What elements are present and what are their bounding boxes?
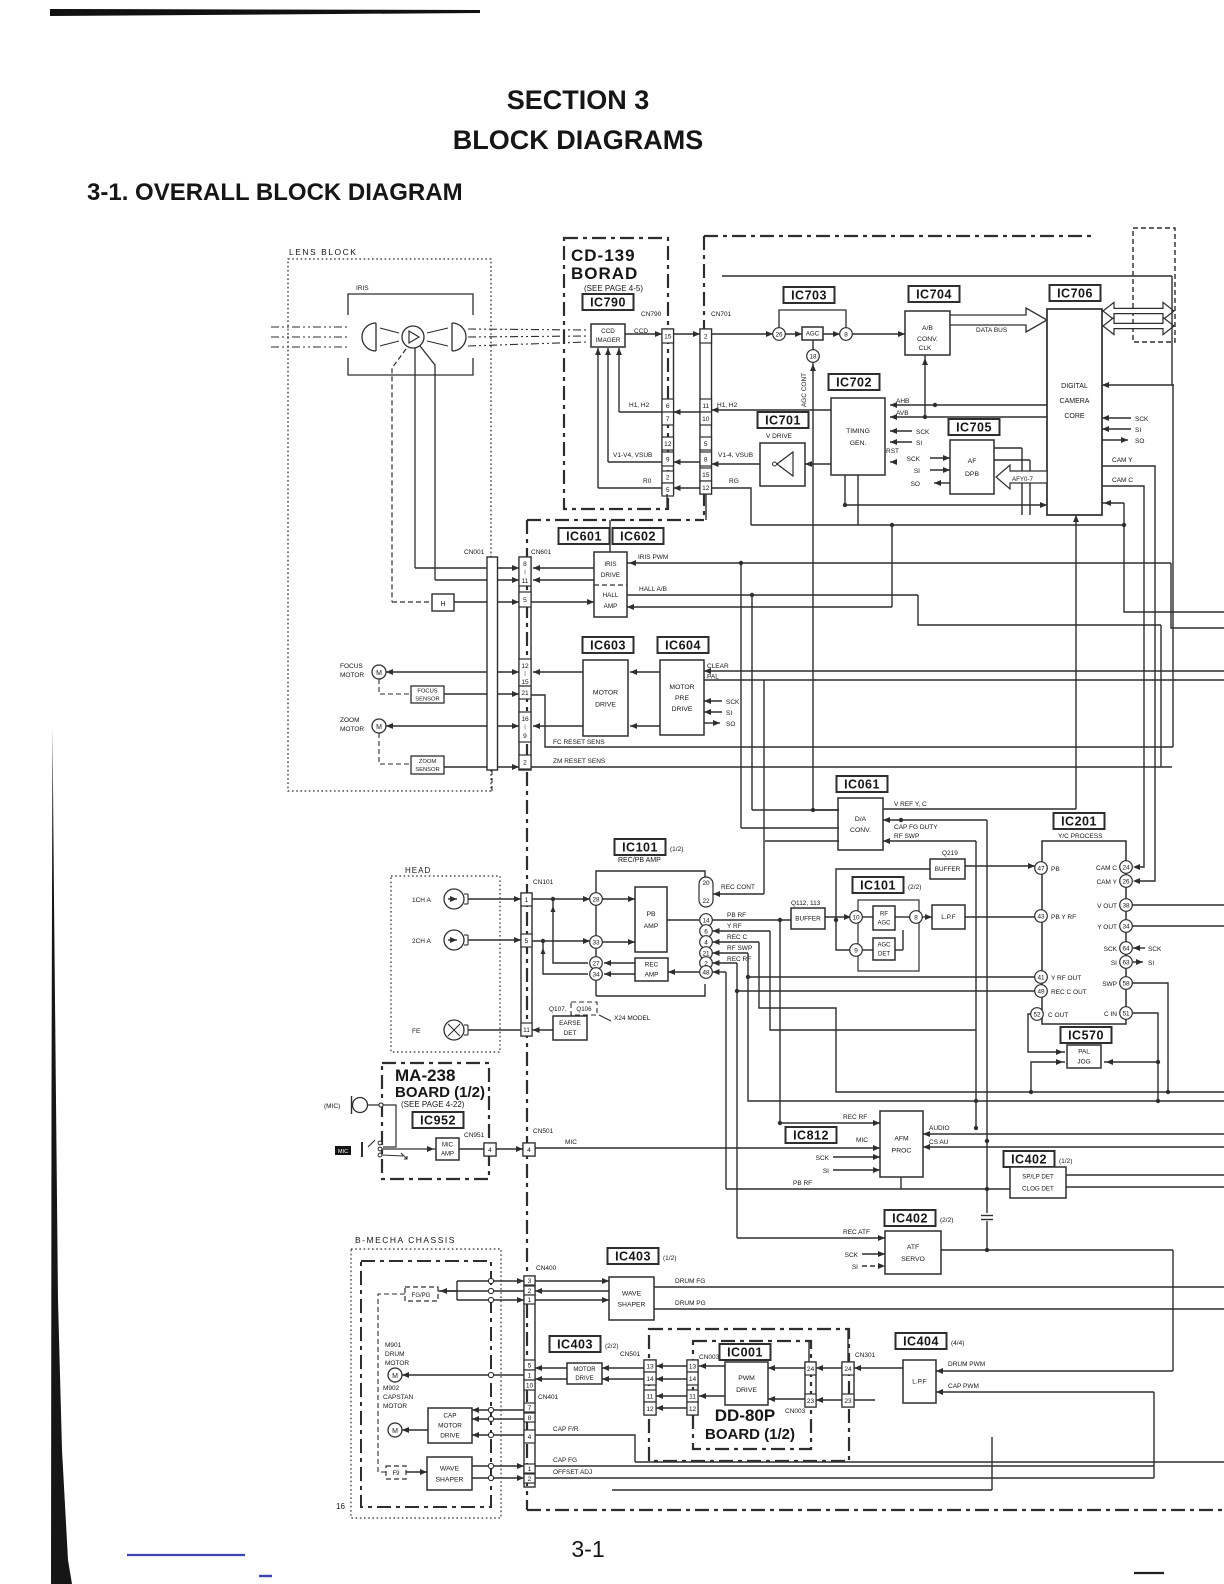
svg-text:IC704: IC704 (916, 287, 952, 301)
svg-text:47: 47 (1037, 865, 1045, 872)
svg-text:CN001: CN001 (464, 549, 485, 556)
svg-text:5: 5 (704, 441, 708, 448)
svg-text:WAVE: WAVE (440, 1465, 460, 1472)
svg-text:23: 23 (807, 1398, 815, 1405)
svg-text:IC790: IC790 (590, 295, 626, 309)
svg-text:10: 10 (852, 914, 860, 921)
svg-text:CN003: CN003 (699, 1354, 720, 1361)
svg-text:IC403: IC403 (557, 1337, 593, 1351)
svg-text:AGC CONT: AGC CONT (801, 373, 808, 407)
svg-text:Y OUT: Y OUT (1097, 924, 1117, 931)
svg-text:18: 18 (809, 353, 817, 360)
svg-text:H: H (440, 601, 445, 608)
svg-text:14: 14 (689, 1376, 697, 1383)
svg-text:34: 34 (592, 971, 600, 978)
svg-text:IMAGER: IMAGER (596, 337, 621, 344)
svg-text:MOTOR: MOTOR (340, 672, 364, 679)
svg-text:CN951: CN951 (464, 1132, 485, 1139)
svg-text:11: 11 (702, 403, 709, 410)
svg-text:3: 3 (528, 1278, 532, 1285)
svg-text:15: 15 (664, 334, 672, 341)
svg-text:(2/2): (2/2) (908, 884, 921, 891)
svg-text:CCD: CCD (601, 328, 615, 335)
svg-text:IC601: IC601 (566, 529, 602, 543)
svg-text:REC: REC (645, 962, 659, 969)
svg-text:M: M (392, 1373, 398, 1380)
svg-text:BOARD (1/2): BOARD (1/2) (705, 1426, 795, 1443)
svg-text:43: 43 (1037, 913, 1045, 920)
svg-text:DRIVE: DRIVE (575, 1376, 593, 1382)
svg-text:SCK: SCK (845, 1252, 859, 1259)
svg-text:11: 11 (522, 578, 529, 585)
svg-text:DET: DET (878, 952, 890, 958)
svg-text:CN003: CN003 (785, 1408, 806, 1415)
svg-text:CLOG DET: CLOG DET (1022, 1186, 1054, 1193)
svg-text:24: 24 (1122, 864, 1130, 871)
svg-text:7: 7 (528, 1405, 532, 1412)
svg-text:AMP: AMP (644, 923, 659, 930)
svg-text:IC603: IC603 (590, 638, 626, 652)
svg-text:33: 33 (592, 939, 600, 946)
svg-text:11: 11 (647, 1394, 654, 1401)
svg-text:DRIVE: DRIVE (440, 1433, 460, 1440)
svg-text:IC812: IC812 (793, 1128, 829, 1142)
svg-text:24: 24 (844, 1366, 852, 1373)
svg-text:AGC: AGC (877, 921, 891, 927)
svg-text:SI: SI (1135, 427, 1141, 434)
svg-text:IC952: IC952 (420, 1113, 456, 1127)
svg-text:8: 8 (704, 457, 708, 464)
svg-text:2: 2 (523, 760, 527, 767)
svg-text:DD-80P: DD-80P (715, 1406, 775, 1425)
svg-text:IC061: IC061 (844, 777, 880, 791)
svg-text:M: M (392, 1428, 398, 1435)
svg-text:(SEE PAGE 4-22): (SEE PAGE 4-22) (401, 1100, 465, 1109)
svg-text:(1/2): (1/2) (670, 846, 683, 853)
svg-text:GEN.: GEN. (850, 440, 867, 447)
svg-text:HALL: HALL (603, 592, 619, 599)
svg-text:IC101: IC101 (622, 840, 658, 854)
svg-text:12: 12 (689, 1406, 697, 1413)
svg-text:21: 21 (521, 690, 529, 697)
svg-text:F9: F9 (392, 1471, 400, 1477)
svg-text:AMP: AMP (645, 972, 659, 979)
svg-text:CN501: CN501 (533, 1128, 554, 1135)
svg-text:HEAD: HEAD (405, 866, 431, 875)
svg-text:DRIVE: DRIVE (595, 701, 616, 708)
svg-text:(1/2): (1/2) (1059, 1158, 1072, 1165)
svg-text:CORE: CORE (1064, 413, 1085, 420)
svg-text:IC201: IC201 (1061, 814, 1097, 828)
svg-text:CAP PWM: CAP PWM (948, 1383, 979, 1390)
svg-text:OFFSET ADJ: OFFSET ADJ (553, 1469, 592, 1476)
svg-text:TIMING: TIMING (846, 428, 870, 435)
svg-text:PROC: PROC (892, 1147, 912, 1154)
svg-text:R0: R0 (643, 478, 652, 485)
svg-text:SO: SO (726, 721, 735, 728)
svg-text:ATF: ATF (907, 1244, 919, 1251)
svg-text:AMP: AMP (604, 603, 618, 610)
svg-text:CONV.: CONV. (917, 336, 938, 343)
svg-text:2CH A: 2CH A (412, 938, 431, 945)
svg-text:5: 5 (528, 1363, 532, 1370)
svg-text:RF SWP: RF SWP (727, 945, 752, 952)
svg-text:JOG: JOG (1077, 1059, 1090, 1066)
svg-text:SI: SI (726, 710, 732, 717)
svg-text:AVB: AVB (896, 410, 909, 417)
svg-text:H1, H2: H1, H2 (629, 402, 650, 409)
svg-text:6: 6 (666, 403, 670, 410)
svg-text:M: M (376, 670, 382, 677)
svg-text:11: 11 (523, 1027, 530, 1034)
svg-text:IC703: IC703 (791, 288, 827, 302)
svg-text:IRIS PWM: IRIS PWM (638, 554, 668, 561)
svg-text:CLEAR: CLEAR (707, 663, 729, 670)
svg-text:SI: SI (1111, 960, 1117, 967)
svg-text:2: 2 (704, 334, 708, 341)
svg-text:(SEE PAGE 4-5): (SEE PAGE 4-5) (584, 284, 643, 293)
svg-text:ZOOM: ZOOM (340, 717, 360, 724)
svg-text:LENS BLOCK: LENS BLOCK (289, 247, 357, 257)
svg-text:8: 8 (523, 561, 527, 568)
svg-text:14: 14 (646, 1376, 654, 1383)
svg-text:Q107,: Q107, (549, 1006, 567, 1013)
svg-text:5: 5 (666, 487, 670, 494)
svg-text:MIC: MIC (565, 1139, 577, 1146)
svg-text:PB RF: PB RF (727, 912, 746, 919)
svg-text:4: 4 (528, 1434, 532, 1441)
svg-text:64: 64 (1122, 945, 1130, 952)
svg-text:DIGITAL: DIGITAL (1061, 383, 1088, 390)
svg-text:A/B: A/B (922, 325, 933, 332)
svg-text:1CH A: 1CH A (412, 897, 431, 904)
svg-text:22: 22 (702, 898, 710, 905)
svg-text:DPB: DPB (965, 471, 979, 478)
svg-text:49: 49 (1037, 988, 1045, 995)
svg-text:CN401: CN401 (538, 1394, 559, 1401)
svg-text:15: 15 (521, 679, 529, 686)
svg-text:MOTOR: MOTOR (593, 689, 618, 696)
svg-text:11: 11 (689, 1394, 696, 1401)
svg-text:ZOOM: ZOOM (419, 759, 437, 765)
svg-text:RF SWP: RF SWP (894, 833, 919, 840)
svg-text:IC570: IC570 (1068, 1028, 1104, 1042)
svg-text:MA-238: MA-238 (395, 1066, 455, 1085)
svg-text:BUFFER: BUFFER (935, 866, 961, 873)
svg-text:28: 28 (592, 896, 600, 903)
svg-text:SERVO: SERVO (901, 1256, 925, 1263)
svg-text:6: 6 (704, 928, 708, 935)
svg-text:CN301: CN301 (855, 1352, 876, 1359)
svg-text:7: 7 (666, 416, 670, 423)
svg-text:IC402: IC402 (892, 1211, 928, 1225)
svg-text:DET: DET (564, 1030, 577, 1037)
svg-text:PWM: PWM (738, 1375, 755, 1382)
svg-text:SI: SI (1148, 960, 1154, 967)
svg-text:MOTOR: MOTOR (383, 1403, 407, 1410)
svg-text:V1-4, VSUB: V1-4, VSUB (718, 452, 753, 459)
svg-text:AGC: AGC (806, 331, 820, 338)
svg-text:DRUM PG: DRUM PG (675, 1300, 706, 1307)
svg-text:AGC: AGC (877, 943, 891, 949)
svg-text:4: 4 (527, 1147, 531, 1154)
svg-text:B-MECHA CHASSIS: B-MECHA CHASSIS (355, 1235, 456, 1245)
svg-text:9: 9 (854, 947, 858, 954)
svg-text:IC101: IC101 (860, 878, 896, 892)
svg-text:AHB: AHB (896, 398, 909, 405)
svg-text:MOTOR: MOTOR (385, 1360, 409, 1367)
svg-text:IRIS: IRIS (356, 285, 369, 292)
svg-text:FC RESET SENS: FC RESET SENS (553, 739, 605, 746)
svg-text:H1, H2: H1, H2 (717, 402, 738, 409)
svg-text:REC C: REC C (727, 934, 748, 941)
svg-text:24: 24 (807, 1366, 815, 1373)
svg-text:1: 1 (525, 897, 529, 904)
svg-text:IC706: IC706 (1057, 286, 1093, 300)
svg-text:|: | (524, 570, 525, 576)
svg-text:Y RF: Y RF (727, 923, 742, 930)
svg-text:DATA BUS: DATA BUS (976, 327, 1008, 334)
svg-text:CAM Y: CAM Y (1112, 457, 1133, 464)
svg-text:SHAPER: SHAPER (618, 1301, 646, 1308)
svg-text:SCK: SCK (1135, 416, 1149, 423)
svg-text:MOTOR: MOTOR (573, 1367, 596, 1373)
svg-text:DRUM: DRUM (385, 1351, 405, 1358)
svg-text:1: 1 (528, 1466, 532, 1473)
svg-text:PAL: PAL (1078, 1049, 1090, 1056)
svg-text:IC701: IC701 (765, 413, 801, 427)
svg-text:10: 10 (702, 416, 710, 423)
svg-text:(MIC): (MIC) (324, 1103, 340, 1110)
svg-text:AFM: AFM (894, 1135, 909, 1142)
svg-text:AUDIO: AUDIO (929, 1125, 950, 1132)
svg-text:Q219: Q219 (942, 850, 958, 857)
svg-text:RF: RF (880, 912, 888, 918)
svg-text:SENSOR: SENSOR (415, 767, 439, 773)
svg-text:1: 1 (528, 1373, 532, 1380)
svg-text:CN101: CN101 (533, 879, 554, 886)
svg-text:AFY0-7: AFY0-7 (1012, 476, 1034, 483)
svg-text:REC RF: REC RF (843, 1114, 867, 1121)
svg-text:2: 2 (528, 1476, 532, 1483)
svg-text:IC604: IC604 (665, 638, 701, 652)
svg-text:26: 26 (1122, 878, 1130, 885)
svg-text:L.P.F: L.P.F (941, 914, 956, 921)
svg-text:CAM C: CAM C (1096, 865, 1117, 872)
svg-text:CAP: CAP (443, 1413, 456, 1420)
svg-text:SCK: SCK (1104, 946, 1118, 953)
svg-text:CS AU: CS AU (929, 1139, 949, 1146)
svg-text:SENSOR: SENSOR (415, 697, 439, 703)
svg-text:13: 13 (646, 1364, 654, 1371)
svg-text:SI: SI (823, 1168, 829, 1175)
svg-text:FG/PG: FG/PG (412, 1293, 431, 1299)
svg-text:V REF Y, C: V REF Y, C (894, 801, 927, 808)
svg-text:SI: SI (916, 440, 922, 447)
svg-text:5: 5 (523, 597, 527, 604)
svg-text:14: 14 (702, 917, 710, 924)
svg-text:V DRIVE: V DRIVE (766, 433, 793, 440)
svg-text:SO: SO (1135, 438, 1144, 445)
svg-text:CN790: CN790 (641, 311, 662, 318)
svg-text:9: 9 (523, 733, 527, 740)
svg-text:CN601: CN601 (531, 549, 552, 556)
svg-text:BLOCK DIAGRAMS: BLOCK DIAGRAMS (453, 125, 704, 155)
svg-text:DRUM FG: DRUM FG (675, 1278, 705, 1285)
svg-text:23: 23 (844, 1398, 852, 1405)
svg-text:BORAD: BORAD (571, 264, 638, 283)
svg-text:SCK: SCK (1148, 946, 1162, 953)
svg-text:RST: RST (886, 448, 899, 455)
svg-text:SHAPER: SHAPER (436, 1476, 464, 1483)
svg-text:MOTOR: MOTOR (669, 684, 694, 691)
svg-text:12: 12 (521, 663, 529, 670)
svg-text:MIC: MIC (856, 1137, 868, 1144)
svg-text:20: 20 (702, 880, 710, 887)
svg-text:58: 58 (1122, 980, 1130, 987)
svg-text:(2/2): (2/2) (940, 1217, 953, 1224)
svg-text:DRIVE: DRIVE (672, 706, 693, 713)
svg-text:RG: RG (729, 478, 739, 485)
svg-text:DRIVE: DRIVE (736, 1387, 757, 1394)
svg-text:V1-V4, VSUB: V1-V4, VSUB (613, 452, 652, 459)
svg-text:IC702: IC702 (836, 375, 872, 389)
svg-text:SP/LP DET: SP/LP DET (1022, 1174, 1054, 1181)
svg-text:1: 1 (528, 1297, 532, 1304)
svg-text:CAM Y: CAM Y (1097, 879, 1118, 886)
svg-text:AF: AF (968, 458, 977, 465)
svg-text:PB Y RF: PB Y RF (1051, 914, 1076, 921)
svg-text:CONV.: CONV. (850, 827, 871, 834)
svg-text:CN501: CN501 (620, 1351, 641, 1358)
svg-text:SECTION 3: SECTION 3 (507, 85, 650, 115)
svg-text:52: 52 (1033, 1011, 1041, 1018)
svg-text:PAL: PAL (707, 674, 719, 681)
svg-text:WAVE: WAVE (622, 1290, 642, 1297)
svg-text:51: 51 (1122, 1010, 1130, 1017)
svg-text:8: 8 (844, 331, 848, 338)
svg-text:REC ATF: REC ATF (843, 1229, 870, 1236)
svg-text:MIC: MIC (442, 1143, 454, 1149)
svg-text:SCK: SCK (816, 1155, 830, 1162)
svg-text:41: 41 (1037, 974, 1045, 981)
svg-text:CAPSTAN: CAPSTAN (383, 1394, 414, 1401)
svg-text:SCK: SCK (726, 699, 740, 706)
svg-text:REC CONT: REC CONT (721, 884, 755, 891)
svg-text:M902: M902 (383, 1385, 400, 1392)
svg-text:M: M (376, 724, 382, 731)
svg-text:26: 26 (775, 331, 783, 338)
svg-text:SCK: SCK (907, 456, 921, 463)
svg-text:REC RF: REC RF (727, 956, 751, 963)
svg-text:FE: FE (412, 1028, 421, 1035)
svg-text:BUFFER: BUFFER (795, 916, 821, 923)
svg-text:HALL A/B: HALL A/B (639, 586, 667, 593)
svg-text:CD-139: CD-139 (571, 246, 636, 265)
svg-text:16: 16 (336, 1502, 345, 1511)
svg-text:(2/2): (2/2) (605, 1343, 618, 1350)
svg-text:IC404: IC404 (903, 1334, 939, 1348)
svg-text:C OUT: C OUT (1048, 1012, 1068, 1019)
svg-text:8: 8 (528, 1415, 532, 1422)
svg-text:27: 27 (592, 960, 600, 967)
svg-text:15: 15 (702, 472, 710, 479)
svg-text:SO: SO (911, 481, 920, 488)
svg-text:Q112, 113: Q112, 113 (791, 900, 821, 907)
svg-text:12: 12 (664, 441, 672, 448)
svg-text:PRE: PRE (675, 695, 689, 702)
svg-text:SI: SI (852, 1264, 858, 1271)
svg-text:V OUT: V OUT (1097, 903, 1117, 910)
svg-text:L.P.F: L.P.F (912, 1379, 927, 1386)
svg-text:AMP: AMP (441, 1152, 454, 1158)
svg-text:REC/PB AMP: REC/PB AMP (618, 857, 661, 864)
svg-text:3-1: 3-1 (571, 1536, 604, 1562)
svg-text:PB: PB (646, 911, 656, 918)
svg-text:CAP FG: CAP FG (553, 1457, 577, 1464)
svg-text:DRUM PWM: DRUM PWM (948, 1361, 985, 1368)
svg-text:(4/4): (4/4) (951, 1340, 964, 1347)
svg-text:CN701: CN701 (711, 311, 732, 318)
svg-text:Y RF OUT: Y RF OUT (1051, 975, 1081, 982)
svg-text:CAMERA: CAMERA (1060, 398, 1090, 405)
svg-text:SWP: SWP (1102, 981, 1117, 988)
svg-text:D/A: D/A (855, 816, 867, 823)
svg-text:12: 12 (646, 1406, 654, 1413)
svg-text:IC705: IC705 (956, 420, 992, 434)
svg-text:SCK: SCK (916, 429, 930, 436)
svg-text:CAP FG DUTY: CAP FG DUTY (894, 824, 938, 831)
svg-text:|: | (524, 725, 525, 731)
svg-text:5: 5 (525, 938, 529, 945)
svg-text:IC602: IC602 (620, 529, 656, 543)
svg-text:BOARD (1/2): BOARD (1/2) (395, 1084, 485, 1101)
svg-text:IRIS: IRIS (604, 561, 616, 568)
svg-text:4: 4 (704, 939, 708, 946)
svg-text:2: 2 (666, 475, 670, 482)
svg-text:MOTOR: MOTOR (340, 726, 364, 733)
svg-text:CAP F/R: CAP F/R (553, 1426, 579, 1433)
svg-text:IC001: IC001 (727, 1345, 763, 1359)
svg-text:FOCUS: FOCUS (417, 689, 437, 695)
svg-text:8: 8 (914, 914, 918, 921)
svg-text:ZM RESET SENS: ZM RESET SENS (553, 758, 606, 765)
svg-text:63: 63 (1122, 959, 1130, 966)
svg-text:48: 48 (702, 969, 710, 976)
svg-text:13: 13 (689, 1364, 697, 1371)
svg-text:38: 38 (1122, 902, 1130, 909)
svg-text:|: | (524, 671, 525, 677)
svg-text:16: 16 (521, 716, 529, 723)
svg-text:9: 9 (666, 457, 670, 464)
svg-text:REC C OUT: REC C OUT (1051, 989, 1087, 996)
svg-text:FOCUS: FOCUS (340, 663, 363, 670)
svg-text:Q106: Q106 (576, 1006, 592, 1013)
svg-text:PB RF: PB RF (793, 1180, 812, 1187)
svg-text:MIC: MIC (338, 1149, 348, 1155)
svg-text:IC402: IC402 (1011, 1152, 1047, 1166)
svg-text:12: 12 (702, 485, 710, 492)
svg-text:CLK: CLK (919, 345, 932, 352)
svg-text:34: 34 (1122, 923, 1130, 930)
svg-text:EARSE: EARSE (559, 1020, 581, 1027)
svg-text:IC403: IC403 (615, 1249, 651, 1263)
svg-text:X24 MODEL: X24 MODEL (614, 1015, 651, 1022)
svg-text:Y/C PROCESS: Y/C PROCESS (1058, 833, 1103, 840)
svg-text:10: 10 (526, 1383, 534, 1390)
svg-text:(1/2): (1/2) (663, 1255, 676, 1262)
svg-text:CN400: CN400 (536, 1265, 557, 1272)
